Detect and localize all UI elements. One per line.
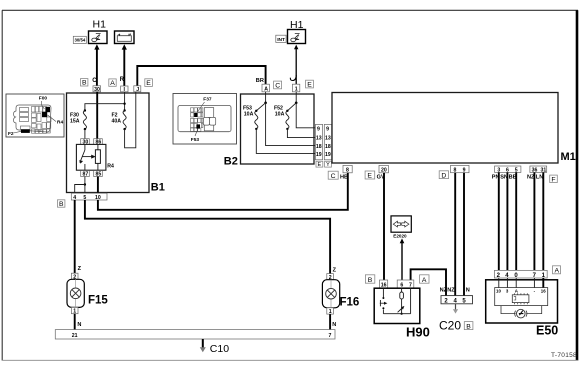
pin A (B2 top) [262, 84, 269, 92]
node F53 bottom [255, 128, 257, 130]
relay R4 pin 86 [94, 139, 103, 146]
svg-text:F16: F16 [340, 297, 360, 309]
page frame bottom [2, 359, 578, 361]
wire: pin I down to F2 [124, 92, 126, 111]
lamp body F15 [67, 279, 84, 307]
wire GV: M1 pin20 down to H90 pin16 [383, 173, 385, 280]
connector letter C (B2 top) [274, 81, 282, 89]
relay housings (middle) [203, 108, 215, 131]
svg-text:C: C [275, 83, 280, 90]
svg-text:Y: Y [326, 162, 330, 168]
pin 1 (B2 top) [292, 84, 299, 92]
relay R4 box [76, 144, 106, 170]
B2 box [241, 94, 315, 164]
svg-text:C10: C10 [210, 343, 229, 355]
relay R4 highlighted (black) [42, 112, 47, 117]
leader F53 [195, 129, 198, 136]
svg-text:30/54: 30/54 [75, 38, 86, 43]
pins 8 9 (M1 bottom, conn D) [451, 165, 470, 173]
node 1 feed [295, 102, 298, 105]
connector letter E (B1 top) [145, 79, 153, 87]
fuse F2 [123, 111, 126, 130]
wire arrow from B1 pin I up to battery [123, 48, 125, 87]
page frame left [1, 10, 3, 360]
E50 board pin labels [496, 289, 546, 294]
fuse F52 [286, 111, 289, 129]
relay contact [80, 144, 85, 170]
svg-text:E: E [146, 80, 151, 87]
relay actuation arrow [83, 156, 93, 158]
svg-text:T-70158: T-70158 [551, 352, 577, 359]
svg-text:F53: F53 [191, 137, 200, 143]
svg-text:J: J [136, 87, 139, 93]
pin 20 (M1 bottom, conn E) [379, 165, 388, 173]
node F53 top [255, 110, 257, 112]
svg-text:C: C [92, 78, 97, 84]
svg-text:18: 18 [325, 144, 331, 150]
wire: pin30 down to relay 86 [96, 92, 98, 139]
pins 3 6 5 (M1 bottom) [495, 166, 521, 173]
svg-text:B1: B1 [151, 182, 165, 194]
connector letter E (below B2 column) [316, 161, 323, 168]
connector letter E (B2 top) [306, 80, 314, 88]
wire 1 down to node [295, 92, 297, 103]
svg-text:20: 20 [381, 168, 387, 174]
H90 push arrow [380, 302, 385, 304]
wire NZ: H90 pin7 to C20 pin2 [411, 269, 446, 295]
svg-text:A: A [264, 87, 268, 93]
svg-text:N: N [332, 322, 336, 328]
node F2 top [123, 109, 125, 111]
svg-text:E50: E50 [536, 324, 558, 338]
svg-text:Z: Z [78, 266, 82, 272]
connector letter A (H90) [420, 275, 429, 284]
svg-text:R4: R4 [107, 164, 114, 170]
wire A down to node [265, 92, 267, 103]
svg-text:10: 10 [496, 289, 501, 294]
svg-text:A: A [555, 267, 560, 274]
svg-text:C20: C20 [439, 319, 461, 333]
leader F37 [197, 102, 205, 113]
svg-text:Z: Z [333, 268, 337, 274]
svg-text:40A: 40A [112, 119, 122, 125]
wire PN: M1 pin3 to E50 [498, 172, 500, 270]
wire arrow H90 pin6 up to E2020 [401, 242, 403, 281]
wire branch to pin 4 [75, 185, 85, 194]
node at F30 top [84, 109, 86, 111]
terminal label box INT [276, 35, 286, 43]
wire F53 to pin 19 [256, 129, 315, 154]
H90 switch contact from pin 16 [382, 288, 384, 314]
ignition key symbol box (H1 right) [288, 30, 306, 44]
battery symbol box [115, 31, 135, 44]
H90 internal pin7 drop [410, 288, 412, 314]
svg-text:15A: 15A [70, 119, 80, 125]
pin 2 (F16) [327, 274, 334, 281]
svg-text:NZ: NZ [447, 288, 455, 294]
svg-text:N: N [77, 322, 81, 328]
svg-text:87: 87 [83, 172, 89, 178]
lamp body F16 [322, 280, 339, 308]
H90 bottom rail [383, 313, 410, 315]
wire relay 87 to pins 4/5 [84, 177, 86, 194]
pins 36 31 (M1 bottom) [530, 166, 547, 173]
connector letter A (B1 top) [109, 79, 116, 87]
svg-text:19: 19 [316, 152, 322, 158]
E50 motor symbol [515, 309, 527, 318]
svg-text:F2: F2 [8, 131, 14, 137]
fusebox body (middle) [178, 106, 231, 132]
node F2 bottom [123, 128, 125, 130]
svg-text:C: C [331, 173, 336, 180]
svg-text:9: 9 [317, 126, 320, 132]
node F52 top [286, 110, 288, 112]
connector letter D (M1) [439, 171, 448, 180]
wire HB: B1 pin10 to M1 pin8 [98, 173, 348, 210]
svg-text:BR: BR [256, 78, 264, 84]
svg-text:4: 4 [73, 195, 76, 201]
connector strip E50 top (2 4 0 7 1) [494, 270, 547, 278]
svg-text:9: 9 [326, 126, 329, 132]
node F52 bottom [286, 128, 288, 130]
svg-text:A: A [110, 80, 115, 87]
leader R4 [48, 115, 57, 122]
svg-text:F00: F00 [39, 95, 48, 101]
ground symbol C10 [202, 339, 204, 349]
E50 IC symbol [512, 293, 529, 304]
E50 pin drop wires [498, 278, 500, 288]
wire BB: M1 pin5 to E50 [515, 172, 517, 270]
wire N: F15 to C10 pin21 [74, 314, 76, 330]
node A feed [264, 102, 267, 105]
pin 16 (H90) [380, 280, 388, 289]
svg-text:LN: LN [536, 174, 543, 180]
wire: F30 feed from pin I node [85, 104, 125, 111]
pin column B2 side (9 13 18 19) [315, 124, 322, 159]
svg-text:5: 5 [83, 195, 86, 201]
pin column M1 side (9 13 18 19) [324, 124, 331, 159]
E50 box [486, 280, 558, 323]
svg-text:18: 18 [316, 144, 322, 150]
svg-text:R4: R4 [57, 120, 63, 126]
svg-text:N: N [466, 288, 470, 294]
page frame right (thick) [576, 10, 579, 360]
node split 4/5 [84, 183, 86, 185]
H90 switch blade arrow [398, 308, 403, 312]
connector letter F (M1) [550, 175, 558, 183]
relay R4 pin 30 [81, 139, 90, 146]
svg-text:E: E [307, 82, 312, 89]
leader F2 [14, 131, 22, 133]
wire A node to pin 18 [266, 103, 316, 146]
fuse F00 highlighted (black) [45, 107, 50, 112]
wire N: F16 to C10 pin7 [329, 314, 331, 330]
wire Z: B1 pin4 down to F15 [74, 200, 76, 273]
wire 1 node to pin 9 [296, 103, 315, 128]
pin 8 (M1 bottom, conn C) [343, 165, 352, 173]
splice hook on wire [290, 75, 296, 81]
fusebox location drawing frame (middle) [173, 94, 237, 145]
relay R4 pin 87 [81, 171, 90, 178]
wire N: M1 D9 down to C20 pin5 [463, 173, 465, 296]
svg-text:E: E [318, 162, 322, 168]
wire diagonal to F52 [287, 103, 296, 111]
H90 box [374, 288, 420, 323]
B1 box [67, 93, 150, 193]
fuse F53 highlighted (black) [196, 124, 200, 128]
leader F00 [42, 101, 45, 109]
svg-text:10: 10 [95, 195, 101, 201]
svg-text:E: E [367, 173, 372, 180]
svg-text:10A: 10A [275, 112, 285, 118]
svg-text:H90: H90 [406, 325, 430, 340]
wire relay 85 to pin 10 [97, 177, 99, 194]
pins 6 7 (H90) [397, 280, 414, 289]
svg-text:F: F [551, 176, 555, 183]
connector letter Y (below M1 column) [325, 161, 332, 168]
svg-text:21: 21 [72, 333, 78, 339]
svg-text:A: A [422, 277, 427, 284]
svg-text:13: 13 [316, 135, 322, 141]
connector letter B (B1 bottom) [58, 200, 65, 208]
pin 1 (F16) [327, 308, 334, 315]
wire LN: M1 pin31 to E50 [542, 172, 544, 270]
B1 bottom connector strip pins 4 5 10 [71, 193, 107, 201]
connector letter B (C20) [464, 322, 473, 331]
svg-text:H1: H1 [93, 19, 107, 31]
svg-text:D: D [441, 172, 446, 179]
wire NZ: M1 pin36 to E50 [533, 172, 535, 270]
pin I (B1 top) [121, 86, 128, 93]
svg-text:B: B [466, 323, 471, 330]
node junction I/F30 [123, 103, 125, 105]
svg-text:13: 13 [325, 135, 331, 141]
svg-text:B: B [368, 277, 373, 284]
fuse grid [32, 107, 52, 134]
svg-text:9: 9 [463, 167, 466, 173]
svg-text:E2020: E2020 [393, 234, 407, 239]
svg-text:B: B [82, 80, 87, 87]
svg-text:7: 7 [329, 333, 332, 339]
H90 lamp from pin 6 [401, 288, 403, 292]
connector letter A (E50) [553, 266, 561, 275]
svg-text:8: 8 [454, 167, 457, 173]
ignition key symbol box (H1 left) [89, 31, 108, 44]
wire arrow from B1 pin 30 up to H1 [96, 48, 98, 86]
connector letter B (H90) [365, 275, 374, 284]
pin J (B1 top) [134, 86, 141, 93]
fuse F30 [83, 111, 86, 130]
fusebox location drawing frame (left) [6, 94, 64, 137]
terminal label box 30/54 [73, 36, 86, 43]
svg-text:1: 1 [295, 87, 298, 93]
indicator symbol box E2020 [391, 216, 411, 232]
left fuse bars [20, 108, 31, 130]
wire SN: M1 pin6 to E50 [506, 172, 508, 270]
pin 2 (F15) [71, 273, 78, 280]
relay R4 pin 85 [94, 171, 103, 178]
M1 box [332, 93, 558, 164]
svg-text:10A: 10A [244, 112, 254, 118]
svg-text:R: R [120, 77, 125, 83]
connector strip C20 [441, 296, 473, 305]
svg-text:16: 16 [541, 289, 546, 294]
wire arrow from B2 pin 1 up to H1 right [295, 48, 297, 84]
svg-text:8: 8 [346, 168, 349, 174]
fuse grid (middle) [191, 108, 203, 132]
wire F52 to pin 13 [287, 129, 315, 138]
E50 inner board [495, 288, 548, 306]
fuse F37 highlighted (black) [194, 113, 197, 117]
wire F2 bottom to pin J [125, 92, 136, 148]
pin 1 (F15) [71, 307, 78, 314]
wire Z: B1 pin5 to F16 [85, 200, 330, 274]
fuse F2 highlighted (black) [21, 129, 30, 133]
svg-text:B: B [59, 201, 64, 208]
ground symbol C20 [455, 304, 457, 310]
wire BR [137, 66, 265, 86]
connector letter B (B1 top) [81, 79, 88, 87]
svg-text:M1: M1 [561, 151, 576, 163]
connector letter E (M1) [365, 171, 375, 180]
pin 30 (B1 top) [93, 86, 101, 93]
relay coil [97, 144, 99, 149]
connector letter C (M1) [328, 171, 338, 180]
page frame top [2, 9, 578, 11]
svg-text:INT: INT [277, 37, 285, 43]
wire diagonal to F53 [256, 103, 265, 111]
svg-text:F37: F37 [203, 97, 212, 103]
fuse F53 [255, 111, 258, 129]
connector strip C10 [55, 330, 335, 339]
svg-text:F15: F15 [88, 295, 108, 307]
node F30 bottom [84, 128, 86, 130]
wire F30 to relay 30 [84, 129, 86, 139]
svg-text:B2: B2 [224, 156, 238, 168]
fusebox body outline [14, 105, 52, 132]
svg-text:19: 19 [325, 152, 331, 158]
E50 flasher motor circuit [501, 306, 542, 314]
wire NZ: M1 D8 down to C20 pin4 [454, 173, 456, 296]
